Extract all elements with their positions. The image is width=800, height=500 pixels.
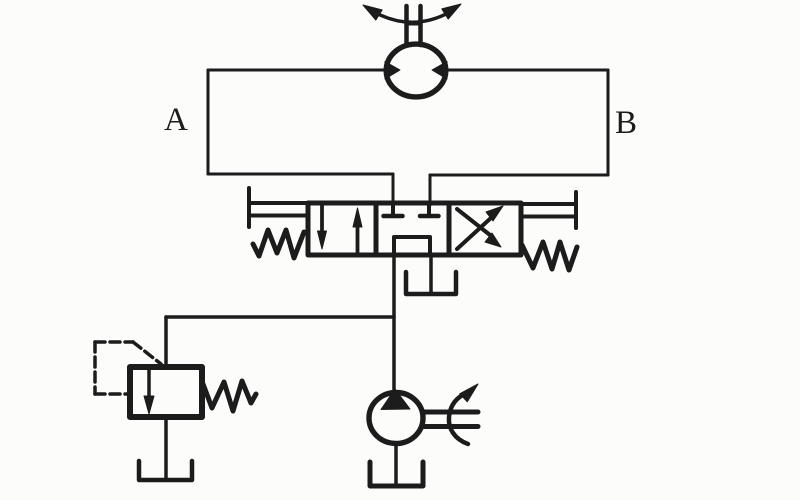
left box up-arrow head <box>353 208 362 227</box>
left pilot cap end bar <box>247 188 251 227</box>
center box P-to-T bypass rectangle <box>394 237 430 255</box>
left pilot cap lower rail <box>249 214 308 218</box>
pump rotation arrowhead <box>460 384 478 402</box>
motor M1 left inward arrowhead <box>385 62 400 80</box>
wire A loop left vertical <box>207 70 210 174</box>
pilot dashed diagonal <box>133 342 161 364</box>
motor shaft left line <box>404 6 409 45</box>
right box crossed arrow (down-right) head <box>485 233 501 247</box>
relief valve flow line <box>147 370 151 400</box>
right box crossed arrow (up-right) line <box>457 217 492 249</box>
tank T3 under pump <box>370 462 423 486</box>
pump shaft lower line <box>424 424 478 429</box>
wire top-left (A rail to motor) <box>208 69 388 72</box>
svg-text:B: B <box>615 105 637 141</box>
pilot dashed top horizontal <box>95 340 133 344</box>
wire pump to tank <box>394 446 398 485</box>
wire relief valve inlet <box>164 317 168 368</box>
motor bidirectional rotation arc <box>376 12 450 22</box>
valve body right box <box>449 203 521 255</box>
wire T port drop to tank <box>429 255 433 292</box>
motor M1 right inward arrowhead <box>432 62 447 80</box>
right pilot cap end bar <box>574 192 578 228</box>
right box crossed arrow (down-right) line <box>457 209 490 235</box>
left box down-arrow line <box>320 204 324 240</box>
right box crossed arrow (up-right) head <box>486 206 503 221</box>
svg-text:A: A <box>164 102 188 138</box>
left return spring <box>253 230 304 258</box>
pump rotation arc <box>449 396 468 444</box>
pump shaft upper line <box>424 410 478 415</box>
left box up-arrow line <box>356 218 360 253</box>
left pilot cap top rail <box>249 201 308 205</box>
right pilot cap top rail <box>521 202 576 206</box>
motor shaft right line <box>418 6 423 45</box>
wire B loop right vertical <box>607 70 610 175</box>
tank T2 under relief valve <box>139 461 192 480</box>
wire B port drop to valve <box>429 175 432 205</box>
wire top-right (motor to B rail) <box>446 69 608 72</box>
left box down-arrow head <box>318 231 327 249</box>
relief valve spring <box>203 381 256 411</box>
motor shaft crossbar <box>407 22 421 26</box>
wire B loop bottom horizontal <box>430 174 608 177</box>
pump outlet triangle <box>381 389 410 410</box>
pump P1 circle <box>369 393 423 444</box>
center box blocked port B bar <box>420 214 439 219</box>
wire A loop bottom horizontal <box>208 173 393 176</box>
wire relief valve outlet <box>164 417 168 478</box>
center box blocked port B stub <box>427 203 431 214</box>
valve body left box <box>308 203 376 255</box>
center box blocked port A bar <box>384 214 403 219</box>
rotation arc right arrowhead <box>442 4 461 19</box>
right pilot cap lower rail <box>521 215 576 219</box>
motor M1 circle <box>386 44 446 97</box>
valve body center box <box>376 203 449 255</box>
pilot dashed left vertical <box>93 342 97 394</box>
relief valve flow arrowhead <box>144 396 154 414</box>
pilot dashed bottom horizontal <box>95 392 130 396</box>
relief valve V1 body <box>130 367 202 417</box>
wire A port drop to valve <box>392 174 395 205</box>
wire pilot branch to relief valve <box>166 315 394 319</box>
wire P line valve to pump <box>392 255 396 389</box>
right return spring <box>522 242 577 270</box>
tank T1 under valve <box>406 272 456 294</box>
rotation arc left arrowhead <box>363 5 382 20</box>
center box blocked port A stub <box>391 203 395 214</box>
